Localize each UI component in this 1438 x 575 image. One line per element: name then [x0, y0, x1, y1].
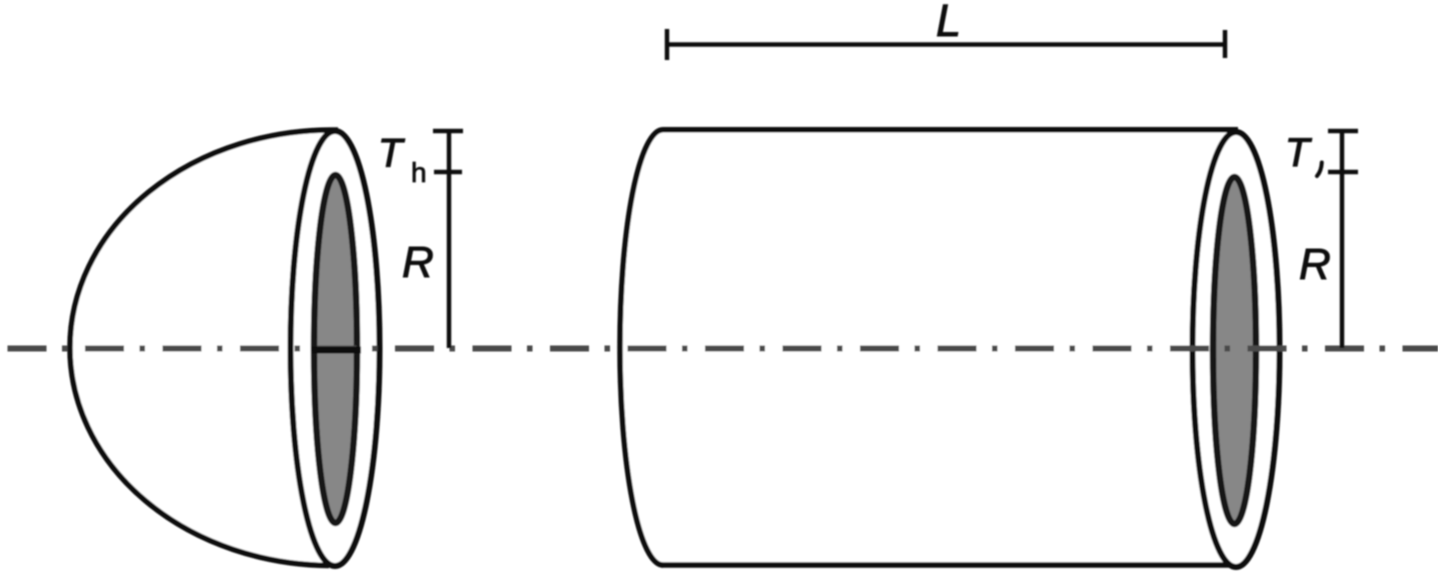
dome head profile (left half-ellipse) [70, 130, 338, 566]
dome rim outer ellipse [291, 131, 380, 566]
cylinder right inner gray ellipse [1213, 177, 1256, 524]
svg-text:R: R [402, 238, 434, 287]
svg-text:T: T [378, 132, 405, 176]
svg-text:T: T [1285, 131, 1312, 175]
left dimension top tick [433, 129, 463, 134]
svg-text:h: h [411, 157, 427, 188]
dome rim inner gray ellipse [314, 175, 357, 523]
right dimension vertical line (Tc + R) [1340, 131, 1345, 348]
left dimension vertical line (Th + R) [447, 131, 452, 348]
right dimension second tick [1328, 170, 1358, 175]
cylinder bottom line [661, 562, 1238, 568]
label subscript mark [1317, 163, 1322, 177]
cylinder right rim outer ellipse [1193, 132, 1280, 567]
svg-text:L: L [936, 0, 961, 46]
dimension L right tick [1223, 30, 1228, 58]
right dimension top tick [1328, 129, 1358, 134]
left dimension second tick [434, 170, 462, 175]
dome rim mid split line [311, 347, 361, 354]
svg-text:R: R [1299, 240, 1331, 289]
dimension L left tick [665, 29, 670, 60]
cylinder left end arc [620, 130, 663, 565]
dimension line L (horizontal) [667, 42, 1225, 47]
cylinder body [620, 130, 1237, 565]
centerline (dash-dot axis) [0, 346, 1438, 352]
cylinder top line [663, 127, 1238, 133]
